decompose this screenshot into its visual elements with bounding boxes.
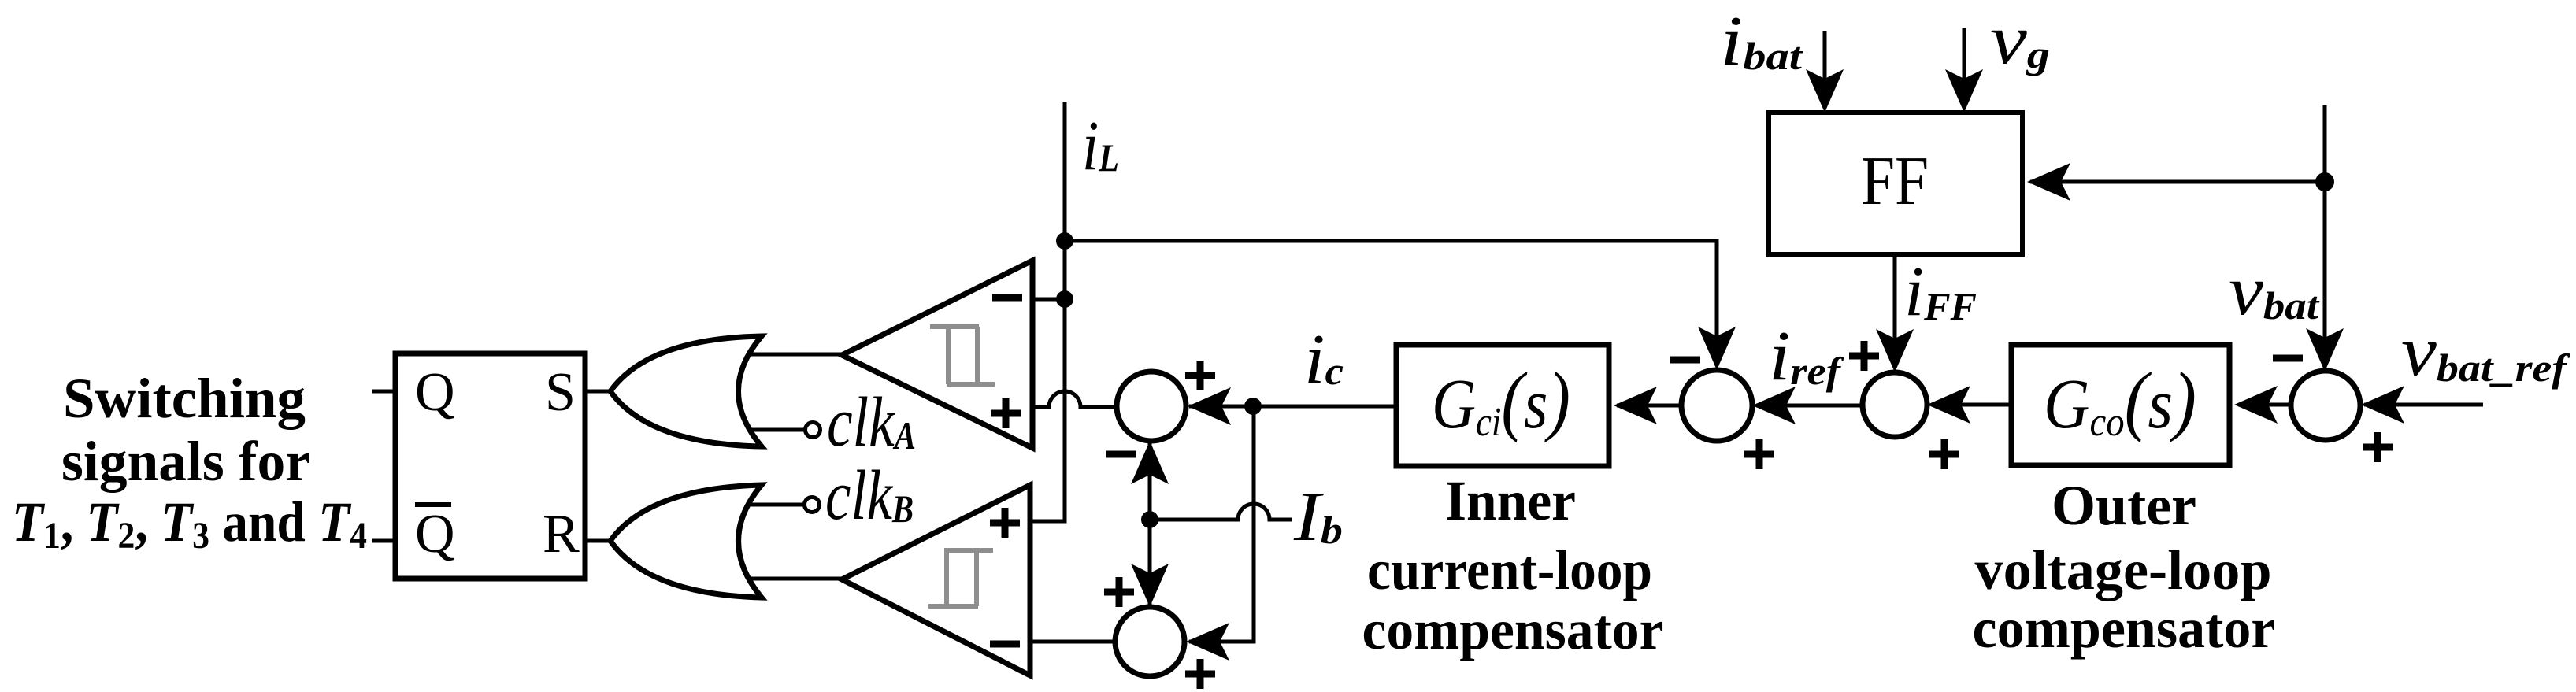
wire S4 output to S3 <box>1756 404 1862 408</box>
svg-text:compensator: compensator <box>1973 597 2276 660</box>
wire OR2 bottom input from comparator CMP2 output <box>748 577 843 581</box>
arrowhead into S4 right <box>1927 386 1970 424</box>
wire ic junction to Gci <box>1253 405 1396 409</box>
wire vg into FF <box>1963 28 1966 79</box>
sign plus S5 bottom input <box>2363 432 2393 462</box>
arrowhead vbat into S5 top <box>2306 328 2344 372</box>
label Outer voltage-loop compensator <box>1973 474 2276 660</box>
wire vbat vertical <box>2323 105 2327 368</box>
OR gate G1 (top, points left) <box>610 336 762 446</box>
arrowhead into Gci right <box>1614 387 1657 424</box>
hysteresis symbol CMP2 <box>928 550 993 606</box>
terminal clkA <box>806 423 821 438</box>
summing node S3 <box>1681 370 1752 441</box>
comparator CMP2 (bottom, points left) <box>842 485 1030 675</box>
OR gate G2 (bottom, points left) <box>610 485 762 598</box>
wire vbat junction to FF right input <box>2030 180 2325 184</box>
arrowhead iFF into S4 top <box>1876 329 1914 372</box>
wire S to OR1 <box>585 390 613 394</box>
svg-text:R: R <box>543 504 580 564</box>
svg-text:Outer: Outer <box>2052 474 2196 537</box>
node junction iL/feedback <box>1056 232 1073 250</box>
svg-text:voltage-loop: voltage-loop <box>1975 538 2272 601</box>
wire S5 output to Gco <box>2238 403 2290 407</box>
wire ibat into FF <box>1823 31 1827 79</box>
hysteresis symbol CMP1 <box>930 327 995 384</box>
svg-text:FF: FF <box>1861 143 1929 220</box>
wire S3 output to Gci <box>1617 404 1681 408</box>
wire R to OR2 <box>585 539 613 543</box>
sign minus S5 top input <box>2273 355 2303 362</box>
wire iL vertical then into CMP2 plus input <box>1030 102 1065 521</box>
svg-text:S: S <box>545 362 576 423</box>
summing node S1 <box>1117 372 1186 441</box>
sign plus CMP1 bottom input <box>991 398 1021 428</box>
block Gci(s) <box>1396 345 1609 466</box>
wire Q stub <box>372 390 395 394</box>
wire Ib branch (hop over ic line) <box>1150 504 1292 520</box>
wire S2 output to CMP2 minus input <box>1030 640 1115 644</box>
wire ic to S1 <box>1189 405 1253 409</box>
wire S1 output to CMP1 plus input (hop over iL) <box>1032 391 1118 407</box>
svg-text:Switching: Switching <box>63 367 306 430</box>
arrowhead vg into FF top <box>1945 69 1983 113</box>
arrowhead into S2 top (down) <box>1131 564 1169 607</box>
svg-text:Q: Q <box>415 504 455 564</box>
arrowhead into S3 top <box>1698 327 1736 370</box>
svg-text:Inner: Inner <box>1445 469 1576 532</box>
wire Qbar stub <box>372 539 395 543</box>
arrowhead into S2 right <box>1186 623 1229 661</box>
wire Gco output to S4 <box>1931 403 2011 407</box>
summing node S4 <box>1863 372 1927 437</box>
arrowhead into S1 right <box>1188 387 1231 425</box>
svg-text:Gci(s): Gci(s) <box>1432 356 1570 445</box>
sign plus S3 bottom input <box>1744 439 1774 469</box>
label Inner current-loop compensator <box>1362 469 1664 661</box>
node junction vbat/FF <box>2315 172 2334 191</box>
wire OR1 top input from comparator CMP1 output <box>748 353 843 357</box>
arrowhead into Gco right <box>2234 386 2278 424</box>
svg-text:compensator: compensator <box>1362 598 1664 661</box>
sign plus S1 right input <box>1185 361 1215 390</box>
node junction ic <box>1244 398 1262 415</box>
node junction Ib <box>1141 511 1158 528</box>
wire CMP1 minus tap <box>1032 298 1065 302</box>
pin Qbar <box>415 504 455 564</box>
sign plus S2 right input <box>1185 659 1215 689</box>
arrowhead into S3 right <box>1752 387 1796 424</box>
arrowhead into S1 bottom (up) <box>1131 441 1169 484</box>
label: Switching signals for T1..T4 <box>12 367 367 557</box>
wire ic junction down to S2 right input <box>1189 406 1254 642</box>
wire iL feedback to S3 <box>1065 241 1717 366</box>
sign minus CMP2 bottom input <box>990 641 1020 648</box>
sign minus CMP1 top input <box>992 294 1022 302</box>
svg-text:T1, T2, T3 and T4: T1, T2, T3 and T4 <box>12 490 367 557</box>
terminal clkB <box>805 498 820 513</box>
wire vbat_ref into S5 <box>2364 403 2483 407</box>
wire iFF from FF bottom to S4 <box>1893 255 1897 368</box>
sign plus S2 top input <box>1104 577 1134 607</box>
svg-text:current-loop: current-loop <box>1367 538 1652 601</box>
sign plus CMP2 top input <box>990 508 1020 538</box>
wire OR2 top input from clkB <box>748 503 804 507</box>
sign minus S1 bottom input <box>1106 451 1136 458</box>
block Gco(s) <box>2011 345 2229 465</box>
sign plus S4 top input <box>1849 341 1879 371</box>
summing node S5 <box>2291 371 2360 440</box>
comparator CMP1 (top, points left) <box>842 261 1032 448</box>
arrowhead into S5 right <box>2361 386 2404 424</box>
block FF <box>1769 113 2022 254</box>
SR latch U1 <box>395 353 585 579</box>
sign plus S4 bottom input <box>1929 439 1959 469</box>
wire Ib vertical between S1 and S2 <box>1148 443 1152 605</box>
wire OR1 bottom input from clkA <box>748 428 805 432</box>
svg-text:signals for: signals for <box>61 430 310 493</box>
svg-text:Q: Q <box>415 362 455 423</box>
node junction CMP1 minus on iL <box>1056 290 1073 308</box>
arrowhead ibat into FF top <box>1806 69 1844 113</box>
arrowhead into FF right <box>2027 163 2070 201</box>
sign minus S3 top input <box>1670 357 1700 364</box>
summing node S2 <box>1115 607 1184 676</box>
